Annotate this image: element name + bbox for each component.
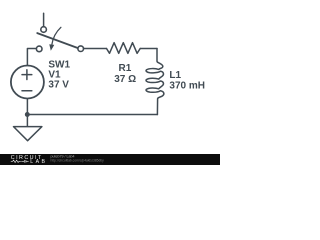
CircuitLab logo zigzag symbol <box>11 160 21 162</box>
wire from V1 top to switch throw C <box>27 49 36 66</box>
switch SW1 common terminal B <box>78 46 84 52</box>
voltage source V1 plus sign <box>22 70 32 80</box>
voltage source V1 circle <box>11 66 44 99</box>
wire from switch common B to resistor R1 <box>84 48 107 50</box>
svg-text:http://circuitlab.com/c/p4akbz: http://circuitlab.com/c/p4akbz385dby <box>51 158 105 162</box>
switch SW1 throw terminal C <box>36 46 42 52</box>
wire from resistor R1 to top-right corner <box>140 48 157 50</box>
watermark bar <box>0 154 220 165</box>
switch SW1 throw terminal A <box>41 27 47 33</box>
ground symbol triangle <box>14 127 42 141</box>
svg-text:LAB: LAB <box>30 159 47 165</box>
junction node dot <box>25 112 30 117</box>
wire stub above switch throw A <box>43 13 45 26</box>
CircuitLab logo capacitor symbol <box>21 160 28 163</box>
wire V1 bottom to ground junction <box>26 99 28 115</box>
wire from inductor L1 bottom to bottom rail <box>27 114 157 116</box>
svg-text:370 mH: 370 mH <box>169 80 205 91</box>
svg-text:37 V: 37 V <box>48 80 69 91</box>
voltage source V1 minus sign <box>22 90 32 92</box>
ground stub wire <box>26 115 28 127</box>
svg-text:37 Ω: 37 Ω <box>114 74 136 85</box>
resistor R1 zigzag <box>107 43 141 54</box>
switch SW1 arrow head <box>49 44 54 51</box>
switch SW1 lever <box>37 33 77 48</box>
svg-text:R1: R1 <box>119 63 132 74</box>
inductor L1 coil <box>146 49 164 115</box>
switch SW1 actuation arrow arc <box>52 27 61 44</box>
